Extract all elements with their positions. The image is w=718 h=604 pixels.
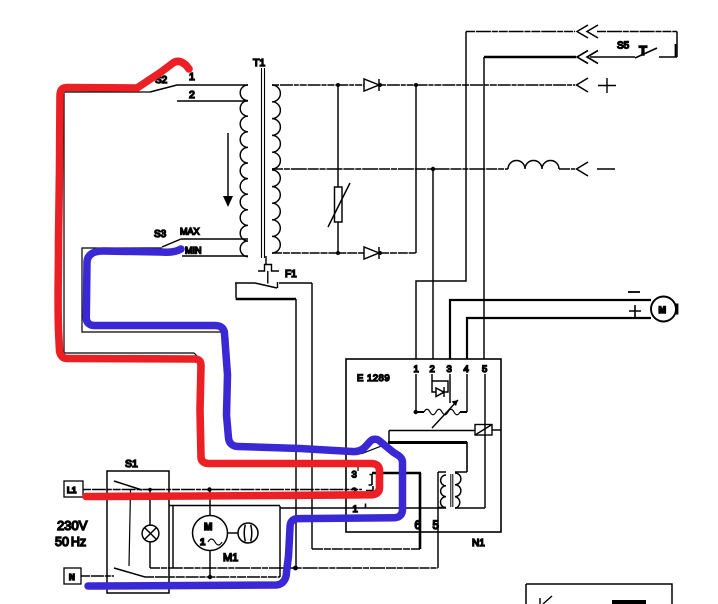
wire motor bottom: [209, 551, 211, 578]
wire top feed to S5 circuit: [466, 31, 677, 33]
wire motor to capacitor: [228, 532, 239, 534]
svg-text:E 1289: E 1289: [357, 373, 390, 384]
wire module pin 1 left: [362, 507, 446, 509]
wire secondary centre tap to minus output: [272, 168, 575, 170]
wire lamp top: [149, 490, 151, 526]
wire S5 feed thick: [484, 56, 576, 59]
node junction dot bus centre: [293, 566, 298, 571]
legend box partial: [526, 584, 672, 604]
transformer N1 internal core: [451, 474, 453, 507]
svg-text:1: 1: [189, 71, 195, 83]
diode V1 top: [364, 79, 379, 91]
wire S3 common to module area (under blue highlight): [82, 248, 389, 454]
meter P1: [651, 297, 676, 322]
svg-text:3: 3: [447, 364, 452, 375]
wire module pin 4 to meter plus: [467, 318, 651, 359]
node junction dot lamp top: [148, 488, 152, 492]
wire relay to box edge: [492, 429, 501, 431]
wire thick internal bar: [388, 441, 467, 444]
switch S2 blade: [150, 85, 177, 92]
wire module pin 3 to meter minus: [450, 300, 651, 359]
svg-text:F1: F1: [285, 269, 297, 280]
node plus symbol: [598, 78, 616, 93]
svg-text:2: 2: [430, 364, 435, 375]
terminal N box: [64, 568, 81, 584]
svg-text:4: 4: [464, 364, 469, 375]
svg-text:N1: N1: [472, 538, 485, 549]
motor enclosure box: [169, 506, 280, 569]
motor M1: [193, 516, 228, 551]
node junction dot motor top: [207, 487, 211, 491]
wire centre tap down to module pin 2: [432, 169, 434, 359]
wire N riser to module pin 1: [280, 506, 362, 577]
wire L1 phase line: [83, 489, 362, 491]
transformer N1 internal left winding: [438, 472, 446, 508]
node junction dot motor bottom: [208, 575, 212, 579]
svg-text:S1: S1: [125, 458, 138, 470]
svg-text:1: 1: [200, 537, 206, 548]
switch S5 blade: [635, 48, 657, 58]
lamp H1: [142, 525, 159, 542]
wire F1 left side down: [235, 283, 237, 298]
node junction dot centre tap: [431, 167, 435, 171]
svg-text:2: 2: [189, 89, 195, 101]
svg-text:1: 1: [414, 364, 419, 375]
svg-text:MIN: MIN: [185, 246, 202, 256]
switch S1 top blade: [114, 481, 142, 490]
svg-text:S3: S3: [154, 229, 167, 240]
svg-text:5: 5: [482, 364, 487, 375]
wire F1 right side down: [311, 283, 313, 549]
wire motor top: [209, 490, 211, 516]
connector plus output: [577, 78, 589, 92]
svg-text:1: 1: [353, 504, 358, 515]
svg-text:3: 3: [352, 470, 357, 481]
diode internal between pins 2 and 3: [432, 381, 448, 397]
svg-text:S5: S5: [617, 41, 630, 52]
switch S1 box: [107, 471, 169, 593]
connector pair top wire: [577, 25, 598, 38]
svg-text:50Hz: 50Hz: [55, 535, 86, 549]
wire N neutral line: [81, 576, 280, 577]
arrow regulation direction: [227, 133, 229, 196]
svg-text:MAX: MAX: [180, 227, 200, 237]
switch S3 blade: [162, 239, 181, 247]
varistor R1 branch wire upper: [337, 85, 339, 187]
capacitor C1 suppressor: [238, 523, 258, 543]
wire center drop to bottom bus: [295, 299, 297, 568]
node junction dots top wire: [336, 83, 340, 87]
potentiometer R2 adjustable: [415, 411, 424, 413]
node junction dot pin1: [414, 410, 418, 414]
connector pair S5 wire: [577, 51, 598, 64]
transformer T1 primary winding: [240, 85, 248, 257]
wire secondary bottom: [272, 252, 416, 254]
pin labels 1 2 3 4 5 top: [411, 362, 420, 373]
wire MAX tap: [181, 238, 248, 240]
node minus symbol: [597, 168, 615, 170]
svg-text:M1: M1: [223, 552, 238, 564]
wire thick bar F1 to center drop: [236, 298, 296, 301]
wire blue highlight path neutral circuit: [86, 249, 402, 586]
pin 3 interior stub: [449, 374, 451, 403]
svg-text:T1: T1: [253, 57, 265, 69]
svg-text:M: M: [204, 522, 212, 533]
switch S5 contact stub and corner: [659, 32, 677, 58]
pin 2 interior wire: [431, 374, 433, 381]
svg-text:T: T: [639, 43, 647, 58]
node junction dots bottom wire: [336, 251, 340, 255]
transformer T1 core: [262, 68, 265, 258]
wire pin3 connector to pin 6 thick: [372, 472, 421, 475]
varistor R1 branch wire lower: [337, 222, 339, 253]
switch S1 bottom blade: [114, 568, 145, 577]
wire rectifier output bus vertical: [415, 85, 417, 253]
svg-text:M: M: [659, 305, 667, 315]
node minus label at meter: [628, 291, 640, 293]
module N1 box E1289: [346, 359, 501, 532]
fuse F1 contact: [235, 282, 312, 288]
transformer T1 secondary winding upper: [272, 85, 280, 169]
inductor L1 choke: [508, 161, 559, 170]
svg-text:230V: 230V: [57, 518, 88, 533]
svg-text:N: N: [69, 573, 75, 582]
wire red highlight path live circuit: [58, 61, 379, 496]
transformer T1 secondary winding lower: [272, 170, 280, 253]
relay K1 coil: [475, 425, 492, 436]
svg-text:6: 6: [415, 520, 421, 532]
wire tap 2: [177, 100, 248, 102]
svg-text:5: 5: [433, 520, 439, 532]
wire bottom pin 5 vertical: [437, 472, 439, 568]
wire pin 6 thick vertical: [419, 473, 422, 549]
wire S5 to blade: [590, 56, 635, 58]
wire S5 feed down to module pin 5: [483, 57, 485, 359]
terminal L1 box: [64, 481, 83, 497]
varistor R1 body: [335, 187, 343, 222]
wire tap 1: [177, 84, 248, 86]
connector minus output: [577, 162, 589, 176]
wire secondary top to plus output: [272, 84, 575, 86]
diode V2 bottom: [364, 247, 379, 259]
transformer N1 internal right winding: [455, 472, 485, 508]
pin 5 interior wire: [484, 374, 486, 508]
wire to module pin 6 bottom: [312, 548, 420, 550]
pin 4 interior wire: [466, 374, 468, 412]
wire MIN tap: [182, 255, 248, 257]
svg-text:L1: L1: [67, 486, 77, 495]
fuse F1 thermal symbol on core: [258, 256, 279, 284]
switch S1 coupling dashed: [129, 490, 131, 566]
wire S2 common to module pin 3 (under red highlight): [64, 92, 358, 471]
node plus label at meter: [629, 305, 641, 317]
wire top feed down to module pin 1: [416, 32, 466, 360]
wire to relay coil: [389, 431, 475, 443]
pin 1 interior wire: [415, 374, 417, 412]
wire bottom bus: [150, 567, 438, 569]
wire lamp bottom: [149, 542, 151, 568]
